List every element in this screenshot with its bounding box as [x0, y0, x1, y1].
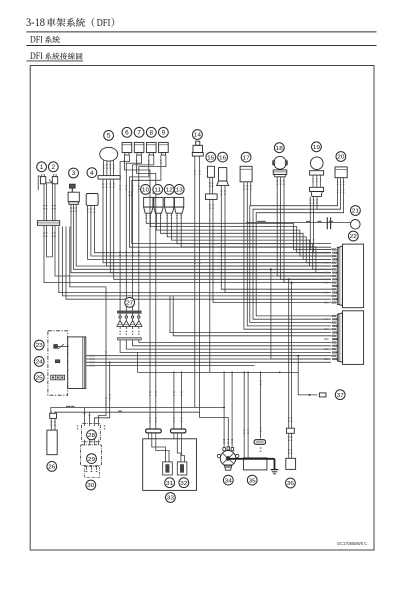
ignition coils 6-9: [122, 142, 169, 158]
svg-text:27: 27: [126, 301, 133, 307]
label circle 9: [159, 127, 169, 137]
label circle 31: [165, 478, 175, 488]
sub heading underline: [26, 60, 83, 62]
svg-text:9: 9: [162, 130, 166, 137]
svg-text:30: 30: [87, 483, 94, 489]
icon 24: [55, 360, 59, 363]
wires of 20: [250, 178, 344, 323]
svg-text:32: 32: [180, 481, 187, 487]
component 26 body: [47, 430, 57, 455]
label circle 21: [351, 206, 361, 216]
svg-text:15: 15: [207, 155, 214, 161]
wires of 15: [209, 199, 331, 372]
feeders to ignition switch 34: [223, 372, 233, 448]
connector above 26: [50, 411, 57, 418]
svg-text:1: 1: [40, 164, 44, 171]
label circle 25: [34, 372, 44, 382]
label circle 4: [87, 168, 97, 178]
svg-text:DFI: DFI: [30, 35, 43, 45]
sensor 15: [206, 166, 218, 199]
svg-text:26: 26: [48, 465, 55, 471]
header rule 2: [26, 45, 376, 47]
wires 26 to body: [51, 418, 56, 430]
label circle 37: [335, 390, 345, 400]
wire to sensor 37: [297, 355, 317, 396]
sensor 16: [217, 168, 229, 186]
label circle 13: [174, 185, 184, 195]
wires of 14: [194, 156, 200, 412]
ignition switch 34: [217, 440, 239, 471]
label circle 23: [34, 340, 44, 350]
label circle 2: [48, 162, 58, 172]
bus B: [55, 412, 228, 447]
wires of 3: [70, 204, 331, 272]
label circle 5: [104, 131, 114, 141]
relay box connector bars: [146, 429, 186, 439]
long cross wire y372: [138, 268, 332, 373]
svg-text:21: 21: [352, 209, 359, 215]
dash marks on buses: [66, 406, 122, 411]
svg-text:5: 5: [107, 133, 111, 140]
label circle 35: [247, 475, 257, 485]
battery 35: [230, 440, 275, 470]
sensor 21 body circle: [351, 220, 361, 230]
relay 28 internal leads: [77, 424, 105, 445]
ECU lower wire stubs: [324, 315, 338, 360]
label circle 17: [241, 152, 251, 162]
svg-text:29: 29: [88, 457, 95, 463]
svg-text:24: 24: [36, 360, 43, 366]
svg-text:10: 10: [142, 188, 149, 194]
switch icon 23: [54, 344, 69, 349]
label circle 6: [122, 127, 132, 137]
relay 29 internal leads: [84, 466, 99, 478]
label circle 28: [87, 430, 97, 440]
label circle 27: [125, 298, 135, 308]
main fuse 36: [286, 428, 296, 469]
svg-text:17: 17: [243, 155, 250, 161]
wires of 1/2 below junction: [43, 225, 331, 299]
svg-text:12: 12: [166, 188, 173, 194]
connector 3: [68, 184, 79, 204]
svg-text:19: 19: [313, 145, 320, 151]
label circle 18: [274, 143, 284, 153]
label circle 12: [164, 185, 174, 195]
svg-text:37: 37: [337, 393, 344, 399]
svg-text:2: 2: [52, 164, 56, 171]
wires of 18: [276, 177, 331, 283]
injector wires: [146, 213, 331, 272]
relay 28 dashed box: [82, 424, 101, 442]
svg-text:3: 3: [72, 170, 76, 177]
branch wires to relays 28/29: [70, 227, 111, 424]
svg-text:4: 4: [90, 170, 94, 177]
sensor 21 line and component: [246, 217, 350, 229]
svg-text:DFI: DFI: [97, 18, 111, 29]
svg-text:7: 7: [137, 130, 141, 137]
relay 29 dashed box: [81, 445, 102, 466]
feeders to relay box connectors: [149, 372, 182, 430]
wires of 16: [221, 186, 332, 293]
junction bar of 1/2: [37, 221, 59, 226]
wires of 4: [87, 206, 331, 259]
svg-text:GC17065BW5 C: GC17065BW5 C: [337, 541, 368, 546]
connector pair 1/2: [38, 174, 58, 190]
sensor 20: [335, 167, 347, 178]
svg-text:16: 16: [219, 155, 226, 161]
sub heading DFI系統接線圖: [30, 52, 83, 62]
label circle 24: [34, 357, 44, 367]
mid vertical feeders to lower ECU: [170, 296, 337, 339]
svg-text:23: 23: [36, 343, 43, 349]
sensor 37 connector: [319, 393, 326, 397]
label circle 34: [223, 475, 233, 485]
ECU connector block upper (22): [337, 244, 363, 308]
label circle 10: [141, 185, 151, 195]
coil primary wires: 6,7 to relay box feeders; 8,9 bundle to ECU: [124, 158, 331, 372]
instrument box output wires: [86, 355, 331, 367]
relay box internals: [152, 439, 187, 475]
svg-text:35: 35: [249, 478, 256, 484]
label circle 33: [166, 493, 176, 503]
spark plug assembly 27: [117, 311, 142, 340]
feeder to battery 35: [260, 372, 262, 439]
sensor 17: [240, 166, 252, 182]
svg-text:6: 6: [125, 130, 129, 137]
sensor 18: [273, 156, 288, 176]
wires of 17: [243, 182, 331, 329]
ECU connector block lower: [337, 311, 363, 365]
icon 25: [51, 375, 65, 380]
fuel injectors 10-13: [144, 197, 184, 213]
svg-text:31: 31: [166, 481, 173, 487]
page title 3-18 車架系統（DFI）: [26, 17, 114, 29]
svg-text:33: 33: [167, 496, 174, 502]
label circle 30: [86, 480, 96, 490]
wires of 1/2 down to junction: [43, 184, 56, 221]
header rule 1: [26, 31, 376, 33]
section heading DFI系統: [30, 35, 60, 45]
bus A: [51, 408, 224, 414]
svg-text:18: 18: [276, 146, 283, 152]
label circle 22: [348, 231, 358, 241]
label circle 19: [312, 142, 322, 152]
svg-text:8: 8: [150, 130, 154, 137]
connector 5 round: [98, 147, 120, 179]
svg-text:13: 13: [176, 188, 183, 194]
svg-text:20: 20: [337, 155, 344, 161]
svg-text:11: 11: [154, 188, 161, 194]
ground symbol: [271, 470, 279, 474]
wires of 19: [310, 197, 332, 253]
diagram border frame: [30, 66, 374, 551]
svg-text:25: 25: [36, 375, 43, 381]
feeders to battery terminals: [243, 372, 249, 459]
sensor 19: [310, 157, 324, 197]
label circle 36: [286, 478, 296, 488]
ECU upper (22) wire stubs: [324, 248, 338, 303]
label circle 7: [134, 127, 144, 137]
svg-text:28: 28: [88, 433, 95, 439]
coil secondary wires down to spark plugs: [119, 158, 166, 311]
label circle 16: [218, 152, 228, 162]
label circle 26: [47, 462, 57, 472]
instrument connector box: [68, 337, 86, 389]
svg-text:36: 36: [287, 481, 294, 487]
instrument dashed box 23-25: [48, 331, 68, 395]
svg-text:3-18: 3-18: [26, 17, 45, 29]
svg-text:14: 14: [194, 133, 201, 139]
spark plug ground wires to lower ECU: [120, 340, 331, 352]
label circle 14: [193, 130, 203, 140]
relay junction box 33: [143, 439, 197, 491]
connector 14: [192, 141, 203, 156]
label circle 8: [146, 127, 156, 137]
svg-text:34: 34: [225, 478, 232, 484]
label circle 3: [69, 168, 79, 178]
connector 4: [86, 194, 98, 206]
label circle 29: [87, 454, 97, 464]
feeders to main fuse 36: [288, 278, 293, 428]
label circle 20: [336, 152, 346, 162]
svg-text:22: 22: [350, 234, 357, 240]
label circle 15: [206, 152, 216, 162]
label circle 1: [37, 162, 47, 172]
label circle 32: [179, 478, 189, 488]
label circle 11: [153, 185, 163, 195]
wires of 5: [102, 179, 331, 279]
